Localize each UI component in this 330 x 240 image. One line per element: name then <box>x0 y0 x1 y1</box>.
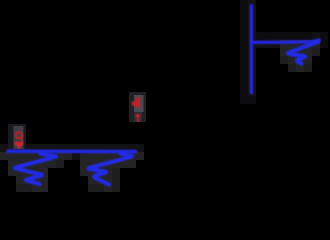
resistor R1 (left squiggle) <box>15 154 56 184</box>
wire: vertical branch top right <box>250 6 254 93</box>
arrowhead to net <box>15 142 24 149</box>
wire: bottom horizontal net <box>8 149 136 153</box>
resistor R3 (top right squiggle) <box>288 42 318 64</box>
node marker (red probe, left): ring <box>15 132 24 149</box>
jpeg artifact mosaic <box>0 0 328 192</box>
wire: horizontal branch to R3 <box>252 40 319 43</box>
resistor R2 (right squiggle) <box>89 154 132 185</box>
node marker (red, middle) <box>132 97 140 121</box>
